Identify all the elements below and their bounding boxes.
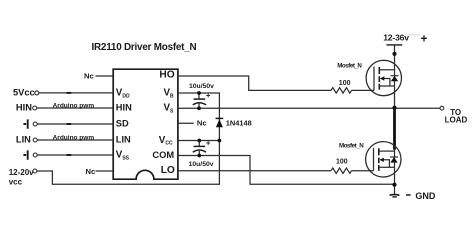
junction dot VCC-D1-supply (218, 139, 222, 143)
svg-text:Arduino pwm: Arduino pwm (53, 135, 95, 142)
wire R1 to Q1 gate (352, 89, 374, 91)
capacitor C1 10u/50v (bootstrap) (193, 93, 210, 108)
svg-text:LIN: LIN (116, 134, 131, 144)
junction dot COM-C2 (197, 154, 201, 158)
wire LO to gate resistor (178, 170, 331, 172)
terminal circle SD (33, 122, 37, 126)
label Mosfet_N (Q2) (339, 143, 364, 150)
source probe symbol VSS (23, 150, 27, 159)
svg-text:IR2110 Driver Mosfet_N: IR2110 Driver Mosfet_N (92, 42, 197, 53)
label Nc bottom-left (86, 167, 96, 176)
pin label VS (164, 103, 175, 115)
diode D1 1N4148 (216, 117, 224, 119)
label + (supply positive) (421, 34, 428, 46)
capacitor C2 10u/50v (VCC decoupling) (193, 141, 210, 156)
label 10u/50v (C1) (189, 83, 214, 90)
svg-text:COM: COM (152, 150, 174, 160)
label - GND (406, 194, 411, 196)
faint guide line (408, 34, 420, 36)
wire Nc bottom-left stub (96, 170, 114, 172)
wire thick segment between Q1 source and Q2 drain (393, 108, 396, 150)
pin label LIN (116, 134, 131, 144)
wire Nc right stub (178, 122, 194, 124)
svg-text:LOAD: LOAD (445, 116, 468, 125)
wire 12-20v supply to VCC (37, 141, 219, 185)
junction tick on VDD wire (67, 92, 72, 94)
resistor R2 100 (low side gate) (331, 168, 352, 173)
node 12-20v vcc label (9, 168, 34, 186)
label Nc right (197, 119, 207, 128)
pin label HO (159, 69, 174, 80)
junction dot VCC-C2 (197, 139, 201, 143)
wire R2 to Q2 gate (352, 170, 374, 172)
pin label SD (116, 118, 129, 128)
source probe symbol SD (23, 119, 27, 128)
wire HO to gate resistor (178, 76, 331, 90)
wire HIN (37, 107, 113, 109)
pin label COM (152, 150, 174, 160)
terminal circle HIN (33, 106, 37, 110)
svg-text:Mosfet_N: Mosfet_N (339, 143, 364, 150)
label 100 (R1) (339, 80, 351, 87)
transistor Q1 Mosfet_N (high side) (366, 60, 401, 95)
svg-text:Nc: Nc (84, 71, 94, 80)
svg-text:10u/50v: 10u/50v (189, 161, 214, 168)
svg-text:12-36v: 12-36v (383, 33, 409, 43)
svg-text:GND: GND (415, 191, 436, 201)
wire Nc top-left stub (96, 75, 114, 77)
svg-text:vcc: vcc (9, 177, 23, 186)
label Nc top-left (84, 71, 94, 80)
pin label LO (161, 165, 175, 176)
label TO LOAD (445, 108, 468, 125)
svg-text:10u/50v: 10u/50v (189, 83, 214, 90)
terminal circle 12-20v (33, 169, 37, 173)
wire VB (178, 93, 220, 141)
svg-text:12-20v: 12-20v (9, 168, 34, 177)
op-amp U1 IR2110 IC body (113, 69, 178, 179)
junction dot VB-C1 (197, 91, 201, 95)
terminal circle TO LOAD (440, 106, 444, 110)
transistor Q2 Mosfet_N (low side) (366, 142, 401, 177)
svg-text:100: 100 (339, 80, 351, 87)
wire COM to ground rail (178, 156, 395, 185)
svg-text:+: + (421, 34, 428, 46)
svg-text:5Vcc: 5Vcc (13, 87, 35, 97)
label Arduino pwm (HIN) (53, 103, 95, 110)
wire VSS (37, 154, 113, 156)
svg-text:1N4148: 1N4148 (226, 119, 252, 128)
terminal circle VSS (33, 153, 37, 157)
svg-text:LO: LO (161, 165, 175, 176)
wire SD (37, 123, 113, 125)
svg-text:100: 100 (336, 159, 348, 166)
label Mosfet_N (Q1) (337, 62, 362, 69)
svg-text:SD: SD (116, 118, 129, 128)
pin label VSS (116, 149, 130, 161)
pin label HIN (116, 103, 132, 113)
terminal circle 5Vcc (35, 91, 39, 95)
junction dot VS-C1 (197, 106, 201, 110)
svg-text:Arduino pwm: Arduino pwm (53, 103, 95, 110)
wire drain rail vertical (394, 45, 396, 185)
pin label VDD (116, 87, 130, 99)
pin label VCC (159, 135, 173, 147)
pin label VB (164, 87, 175, 99)
title (92, 42, 197, 53)
node 5Vcc label (13, 87, 35, 97)
label 1N4148 (226, 119, 252, 128)
junction dot load node (392, 106, 396, 110)
junction dot ground node (392, 183, 396, 187)
node HIN label (16, 103, 32, 113)
terminal circle LIN (33, 138, 37, 142)
label Arduino pwm (LIN) (53, 135, 95, 142)
ground symbol (390, 185, 400, 197)
svg-text:Nc: Nc (197, 119, 207, 128)
wire LIN (37, 139, 113, 141)
svg-text:HIN: HIN (116, 103, 132, 113)
svg-text:HO: HO (159, 69, 174, 80)
junction dot supply rail (392, 52, 396, 56)
wire VS / load line (178, 107, 440, 109)
junction tick on SD wire (67, 123, 72, 125)
wire VCC (178, 140, 220, 142)
node LIN label (16, 134, 31, 144)
wire VDD (39, 92, 113, 94)
svg-text:HIN: HIN (16, 103, 32, 113)
label 10u/50v (C2) (189, 161, 214, 168)
junction tick on VSS wire (67, 154, 72, 156)
svg-text:LIN: LIN (16, 134, 31, 144)
resistor R1 100 (high side gate) (331, 88, 352, 93)
power supply 12-36v terminal (383, 33, 409, 43)
svg-text:Mosfet_N: Mosfet_N (337, 62, 362, 69)
svg-text:Nc: Nc (86, 167, 96, 176)
label 100 (R2) (336, 159, 348, 166)
